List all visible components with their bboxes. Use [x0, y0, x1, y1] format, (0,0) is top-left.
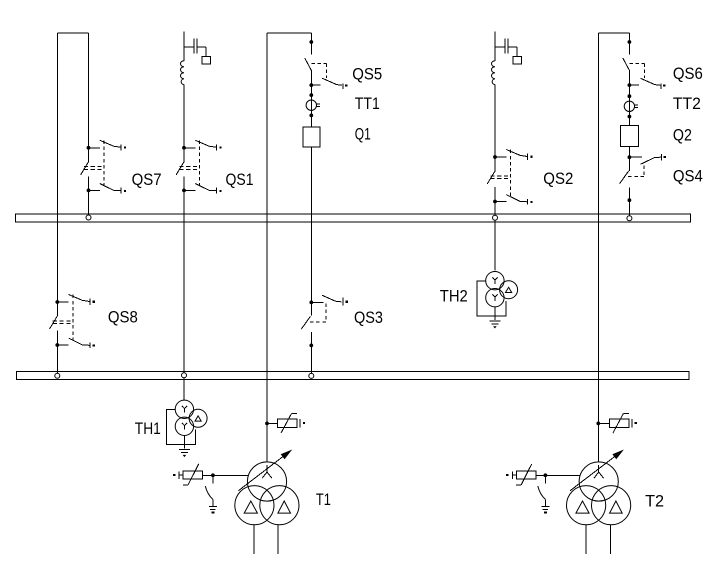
node feeder2-W1 connection	[493, 215, 498, 220]
label QS3	[354, 308, 383, 327]
wire T1 LV lead left	[253, 525, 255, 555]
label QS2	[543, 169, 573, 188]
disconnector QS4 with earthing switch	[620, 154, 666, 202]
disconnector QS1 with earthing switches	[176, 140, 221, 193]
svg-text:TT1: TT1	[355, 94, 380, 113]
label T1	[316, 490, 331, 509]
node T2 arrester tap	[596, 422, 600, 426]
T2 neutral arrester terminal	[506, 471, 516, 479]
disconnector QS2 with earthing switches	[487, 150, 532, 205]
voltage transformer TH2	[477, 272, 518, 329]
svg-text:QS5: QS5	[352, 65, 382, 84]
label QS1	[226, 170, 254, 189]
label Q1	[355, 125, 371, 144]
wire line feeder 1	[183, 85, 185, 401]
node T1 arrester tap	[265, 422, 269, 426]
node feeder1-W2 connection	[182, 373, 187, 378]
svg-text:TH1: TH1	[135, 419, 161, 438]
current transformer TT1	[306, 93, 320, 117]
svg-text:T2: T2	[645, 491, 664, 510]
busbar W1 (upper bus)	[16, 214, 691, 222]
disconnector QS8 with earthing switches	[50, 295, 95, 349]
svg-text:Q2: Q2	[673, 125, 692, 144]
node QS3-W2 connection	[309, 373, 314, 378]
surge arrester FV3 (T2 HV)	[610, 413, 630, 433]
wire T2 feeder	[597, 33, 599, 462]
wire T1 arrester stub	[267, 422, 278, 424]
wire T2 arrester stub	[598, 422, 609, 424]
svg-text:QS8: QS8	[108, 308, 138, 327]
surge arrester FV1 (T1 HV)	[278, 413, 298, 433]
label TH1	[135, 419, 161, 438]
svg-text:QS6: QS6	[673, 64, 703, 83]
wire Q1 column upper	[310, 33, 312, 127]
wire top link T1	[267, 32, 311, 34]
label QS4	[673, 167, 703, 186]
wire top link left feeder	[57, 32, 88, 34]
disconnector QS7 with earthing switches	[81, 140, 126, 193]
T1 neutral arrester terminal	[173, 471, 183, 479]
disconnector QS3 with earthing switch	[301, 295, 348, 347]
voltage transformer TH1	[167, 400, 208, 457]
label QS8	[108, 308, 138, 327]
node QS7-W1 connection	[86, 215, 91, 220]
current transformer TT2	[624, 94, 638, 118]
svg-text:Q1: Q1	[355, 125, 371, 144]
T2 arrester terminal	[632, 419, 637, 427]
power transformer T1	[235, 450, 299, 525]
wire left feeder (QS8 column)	[56, 33, 58, 373]
disconnector QS5 with earthing switch	[305, 40, 348, 89]
svg-text:QS4: QS4	[673, 167, 703, 186]
wire T1 feeder	[266, 33, 268, 462]
wire Q1 column lower	[310, 147, 312, 373]
power transformer T2	[567, 450, 631, 525]
svg-text:TT2: TT2	[673, 94, 701, 113]
wire T2 LV lead left	[585, 525, 587, 555]
breaker Q1	[303, 127, 320, 147]
node QS8-W2 connection	[55, 373, 60, 378]
svg-text:TH2: TH2	[440, 287, 468, 306]
wire Q2 column lower	[628, 147, 630, 216]
disconnector QS6 with earthing switch	[623, 40, 666, 89]
wire line feeder 2	[494, 85, 496, 271]
label QS7	[132, 170, 162, 189]
earthing switch + ground (T1 neutral)	[205, 475, 217, 513]
wire Q2 column upper	[628, 33, 630, 126]
label TH2	[440, 287, 468, 306]
earthing switch + ground (T2 neutral)	[538, 475, 550, 513]
busbar W2 (lower bus)	[17, 371, 690, 379]
label Q2	[673, 125, 692, 144]
wire top link T2	[598, 32, 629, 34]
breaker Q2	[621, 126, 639, 147]
wire line feeder 1 top	[183, 31, 185, 61]
wire T2 LV lead right	[609, 525, 611, 555]
label QS5	[352, 65, 382, 84]
label QS6	[673, 64, 703, 83]
svg-text:QS2: QS2	[543, 169, 573, 188]
line coupling PLC2 (capacitor + trap)	[492, 38, 522, 84]
T1 arrester terminal	[300, 419, 305, 427]
svg-text:QS7: QS7	[132, 170, 162, 189]
surge arrester FV4 (T2 neutral)	[516, 464, 536, 485]
surge arrester FV2 (T1 neutral)	[183, 464, 203, 485]
wire T1 neutral branch	[203, 473, 249, 477]
wire line feeder 2 top	[494, 31, 496, 61]
svg-text:QS1: QS1	[226, 170, 254, 189]
label T2	[645, 491, 664, 510]
line coupling PLC1 (capacitor + trap)	[181, 38, 211, 84]
wire T1 LV lead right	[277, 525, 279, 555]
node QS4-W1 connection	[627, 216, 632, 221]
svg-text:QS3: QS3	[354, 308, 383, 327]
label TT1	[355, 94, 380, 113]
wire T2 neutral branch	[536, 473, 581, 477]
svg-text:T1: T1	[316, 490, 331, 509]
label TT2	[673, 94, 701, 113]
wire QS7 column	[88, 33, 90, 215]
